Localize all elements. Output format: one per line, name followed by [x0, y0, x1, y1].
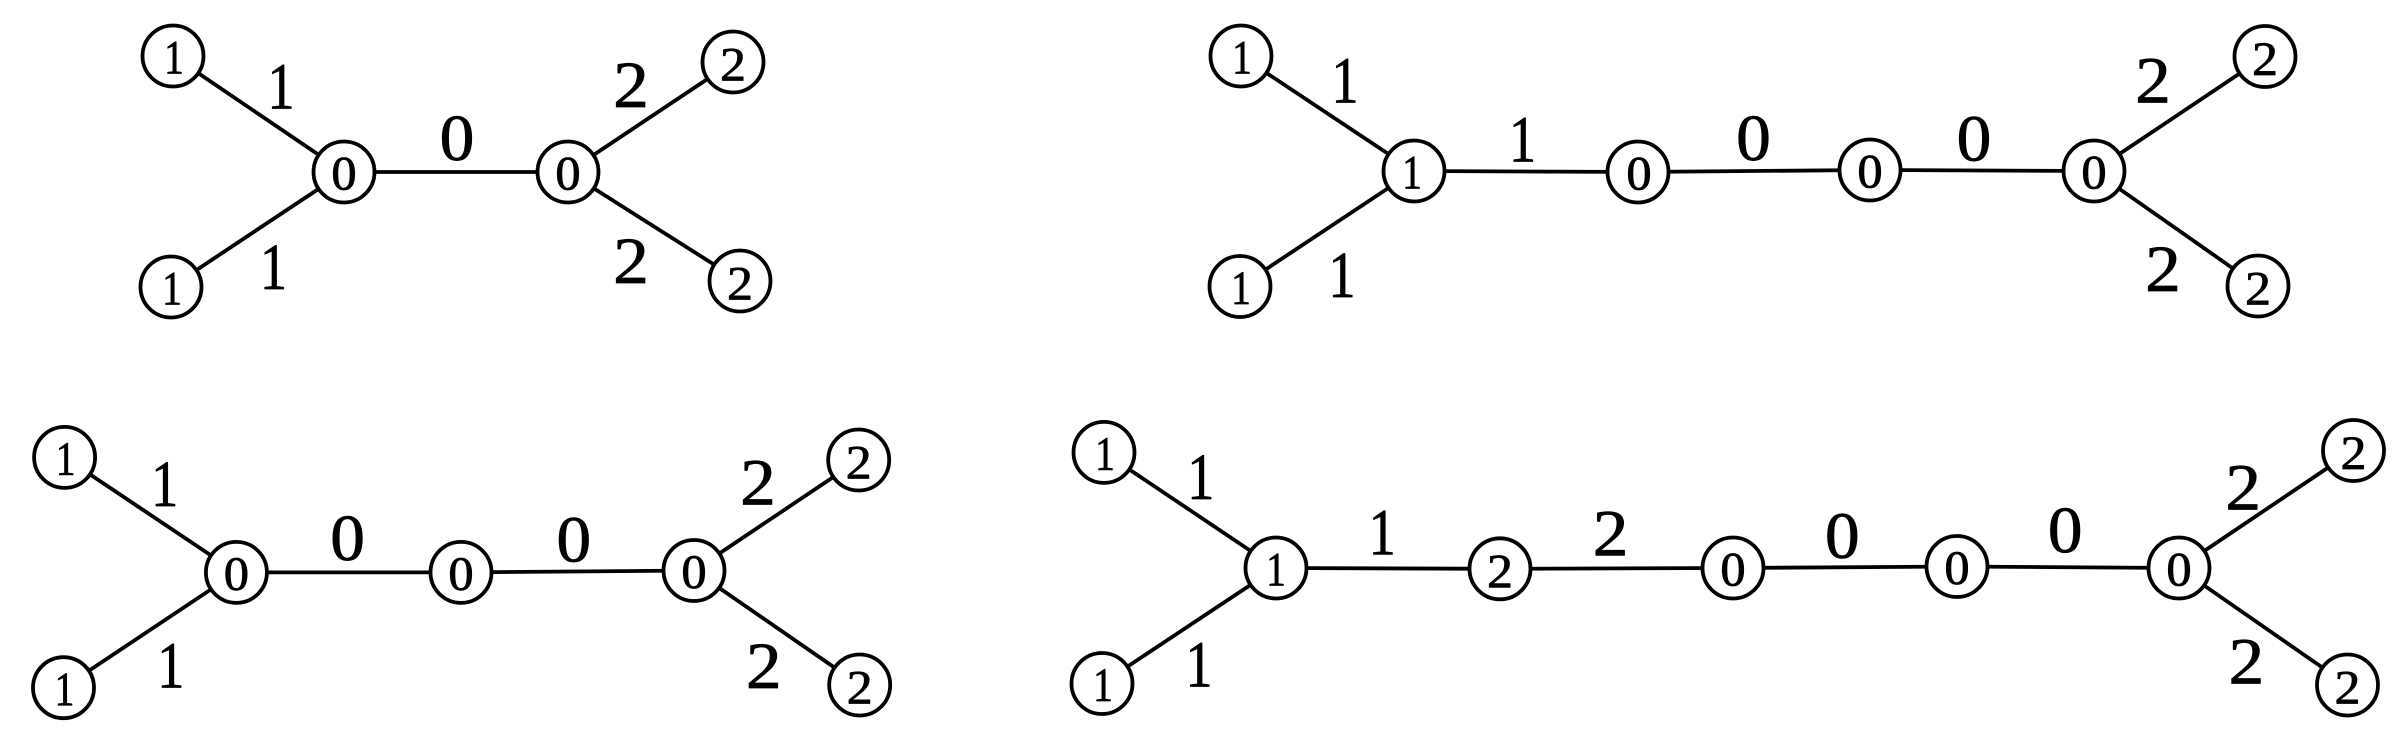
wire G1 hub-R to leaf-LR [568, 172, 740, 281]
edge label G3 "1" upper-left [156, 462, 175, 506]
node G4 n3 [1703, 538, 1764, 599]
node G2 leaf-UR [2235, 26, 2296, 87]
node label G3 leaf-LL "1" [58, 674, 72, 706]
node G1 leaf-UL [143, 26, 204, 87]
wire G3 leaf-LL to hub-L [64, 572, 237, 687]
wire G3 mid to hub-R [461, 571, 694, 573]
wire G2 leaf-LL to hub1 [1240, 171, 1414, 287]
node label G1 leaf-UR "2" [722, 49, 743, 81]
wire G1 hub-R to leaf-UR [568, 62, 733, 172]
edge label G2 "1" chain1 [1514, 118, 1533, 162]
edge label G4 "2" lower-right [2232, 640, 2261, 684]
wire G1 hub-L to hub-R [344, 170, 568, 174]
edge label G2 "1" upper-left [1336, 59, 1355, 103]
node label G4 n4 "0" [1946, 552, 1967, 584]
node label G2 leaf-LR "2" [2247, 273, 2268, 305]
node label G4 n2 "2" [1489, 556, 1510, 588]
edge label G2 "2" lower-right [2148, 247, 2177, 291]
node label G2 hub2 "0" [2083, 157, 2104, 189]
node G2 n3 [1840, 140, 1901, 201]
wire G3 hub-R to leaf-UR [694, 460, 859, 571]
node label G3 leaf-UR "2" [848, 447, 869, 479]
node G3 leaf-UR [828, 430, 889, 491]
node G4 hub1 [1246, 538, 1307, 599]
node label G3 mid "0" [450, 558, 471, 590]
wire G4 n3 to n4 [1733, 567, 1957, 569]
node label G3 hub-L "0" [226, 558, 247, 590]
node label G3 hub-R "0" [683, 556, 704, 588]
node label G1 leaf-LR "2" [729, 268, 750, 300]
edge label G3 "0" chain2 [559, 518, 588, 563]
node G1 leaf-LR [710, 251, 771, 312]
node G4 leaf-UL [1074, 422, 1135, 483]
node G3 leaf-LL [33, 657, 94, 718]
wire G2 hub2 to leaf-UR [2094, 57, 2265, 172]
node G1 hub-R [538, 142, 599, 203]
node G3 mid [431, 542, 492, 603]
edge label G2 "0" chain3 [1959, 117, 1988, 162]
edge label G4 "1" upper-left [1192, 455, 1211, 499]
wire G4 n2 to n3 [1500, 566, 1733, 571]
wire G4 leaf-UL to hub1 [1104, 452, 1276, 568]
edge label G4 "0" chain3 [1828, 514, 1857, 559]
node G4 hub2 [2149, 538, 2210, 599]
wire G3 leaf-UL to hub-L [65, 457, 237, 572]
edge label G4 "1" chain1 [1373, 511, 1392, 555]
node label G1 leaf-LL "1" [166, 273, 180, 305]
node label G2 leaf-LL "1" [1235, 272, 1249, 304]
node label G4 leaf-UL "1" [1099, 438, 1113, 470]
edge label G3 "0" chain1 [333, 516, 362, 561]
node label G4 hub1 "1" [1270, 554, 1284, 586]
node label G4 leaf-LL "1" [1097, 669, 1111, 701]
edge label G4 "2" chain2 [1596, 512, 1625, 556]
node G4 leaf-UR [2323, 420, 2384, 481]
wire G4 hub1 to n2 [1276, 566, 1500, 571]
node G2 leaf-LR [2228, 256, 2289, 317]
node label G1 leaf-UL "1" [168, 42, 182, 74]
node label G1 hub-R "0" [557, 158, 578, 190]
edge label G1 "1" lower [265, 245, 284, 289]
node G2 n2 [1608, 142, 1669, 203]
node label G2 n3 "0" [1859, 156, 1880, 188]
wire G3 hub-L to mid [236, 571, 461, 575]
wire G2 hub1 to n2 [1414, 171, 1638, 172]
wire G4 hub2 to leaf-LR [2179, 568, 2348, 685]
node G1 leaf-UR [703, 32, 764, 93]
node label G4 leaf-UR "2" [2343, 437, 2364, 469]
node label G2 leaf-UL "1" [1236, 42, 1250, 74]
wire G1 leaf-UL to hub-L [173, 56, 344, 172]
node G2 hub2 [2064, 141, 2125, 202]
node G4 n2 [1470, 538, 1531, 599]
node G1 leaf-LL [141, 257, 202, 318]
node G2 leaf-UL [1211, 26, 1272, 87]
wire G1 leaf-LL to hub-L [171, 172, 344, 287]
edge label G4 "2" upper-right [2229, 466, 2258, 510]
node label G4 n3 "0" [1722, 554, 1743, 586]
edge label G2 "2" upper-right [2138, 59, 2167, 103]
node label G2 leaf-UR "2" [2254, 43, 2275, 75]
edge label G3 "2" lower-right [749, 644, 778, 688]
node G4 n4 [1927, 536, 1988, 597]
edge label G1 "2" upper [616, 63, 645, 107]
wire G4 hub2 to leaf-UR [2179, 451, 2354, 569]
wire G4 n4 to hub2 [1957, 567, 2179, 569]
node label G3 leaf-UL "1" [59, 443, 73, 475]
wire G2 leaf-UL to hub1 [1241, 56, 1414, 171]
node G2 hub1 [1384, 141, 1445, 202]
node label G2 hub1 "1" [1406, 157, 1420, 189]
node label G4 hub2 "0" [2168, 554, 2189, 586]
wire G3 hub-R to leaf-LR [694, 571, 860, 686]
node label G4 leaf-LR "2" [2337, 672, 2358, 704]
edge label G1 "2" lower [616, 239, 645, 283]
edge label G2 "0" chain2 [1739, 116, 1768, 161]
edge label G4 "1" lower-left [1190, 643, 1209, 687]
wire G2 hub2 to leaf-LR [2094, 171, 2258, 286]
wire G2 n2 to n3 [1638, 170, 1870, 172]
node G3 hub-R [664, 540, 725, 601]
edge label G3 "2" upper-right [743, 461, 772, 505]
edge label G2 "1" lower-left [1333, 253, 1352, 297]
node label G2 n2 "0" [1628, 158, 1649, 190]
wire G2 n3 to hub2 [1870, 170, 2094, 171]
node label G1 hub-L "0" [333, 158, 354, 190]
edge label G1 "1" upper [272, 65, 291, 109]
node label G3 leaf-LR "2" [849, 672, 870, 704]
wire G4 leaf-LL to hub1 [1102, 568, 1276, 684]
edge label G1 "0" middle [442, 116, 471, 161]
node G4 leaf-LL [1072, 653, 1133, 714]
node G4 leaf-LR [2317, 655, 2378, 716]
node G2 leaf-LL [1210, 256, 1271, 317]
node G1 hub-L [314, 142, 375, 203]
node G3 leaf-LR [829, 655, 890, 716]
node G3 hub-L [206, 542, 267, 603]
edge label G3 "1" lower-left [162, 644, 181, 688]
edge label G4 "0" chain4 [2051, 508, 2080, 553]
node G3 leaf-UL [34, 427, 95, 488]
